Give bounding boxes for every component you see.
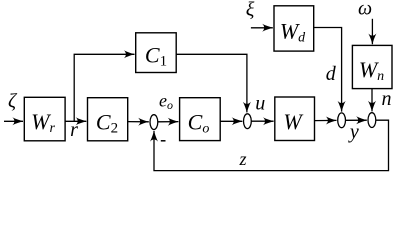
wire: feedback z from n junction around bottom back up into summing junction (154, 120, 389, 170)
svg-text:n: n (382, 88, 392, 110)
wire: zeta input arrow into Wr (4, 120, 23, 122)
wire: C1 output right then down into u junction (176, 54, 247, 112)
junction y circle (338, 113, 346, 128)
svg-text:ζ: ζ (8, 90, 18, 112)
wire: Wn output down into n junction (371, 89, 373, 112)
wire: C2 to summing junction (128, 121, 149, 123)
block Co (180, 98, 221, 141)
svg-text:eo: eo (159, 90, 173, 112)
wire: W to y junction (315, 119, 337, 121)
block Wn (352, 45, 392, 88)
minus sign at summing junction (161, 140, 166, 142)
block Wr (24, 97, 65, 141)
wire: Wr to C2 with junction at r (65, 120, 86, 122)
svg-text:r: r (70, 119, 78, 141)
wire: Wd output right then down into y junction, node d (314, 28, 342, 112)
wire: summing junction to Co (158, 121, 179, 123)
block C1 (136, 33, 177, 73)
wire: omega input arrow down into Wn (371, 19, 373, 44)
junction u circle (244, 114, 252, 129)
wire: Co to u junction (220, 120, 242, 122)
wire: branch from r up and right into C1 (74, 54, 134, 121)
svg-text:z: z (238, 149, 246, 169)
svg-text:d: d (326, 63, 337, 85)
wire: u junction to W (251, 120, 273, 122)
block W (275, 97, 315, 141)
svg-text:u: u (255, 93, 265, 115)
block C2 (88, 98, 128, 141)
junction n circle (368, 113, 376, 128)
svg-text:ξ: ξ (246, 0, 255, 21)
block Wd (274, 6, 314, 51)
summing junction circle (150, 115, 158, 130)
wire: xi input arrow into Wd (251, 27, 273, 29)
wire: y junction to n junction (346, 119, 367, 121)
svg-text:ω: ω (358, 0, 372, 19)
svg-text:y: y (348, 121, 359, 143)
svg-text:W: W (283, 109, 303, 134)
